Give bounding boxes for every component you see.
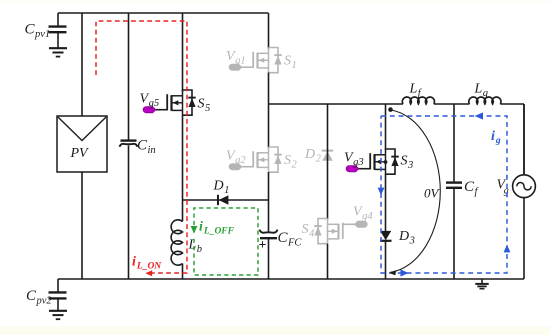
wire half-bridge midpoint to L_f	[269, 103, 404, 105]
zero-voltage arc annotation	[388, 107, 440, 275]
capacitor C_in	[120, 138, 156, 157]
inductor L_g	[469, 82, 501, 105]
label 0V	[424, 186, 441, 201]
wire source top	[523, 104, 525, 175]
wire PV top	[81, 13, 83, 116]
mosfet S4 (inactive, mirrored)	[302, 219, 343, 244]
diode D2 (inactive)	[304, 147, 333, 165]
label i_g	[491, 129, 501, 146]
mosfet S5	[167, 90, 210, 115]
wire L_g to right rail	[500, 104, 524, 175]
gate terminal V_g3	[344, 151, 370, 172]
inductor L_b	[171, 220, 202, 265]
wire D3 to bottom	[385, 241, 387, 279]
capacitor C_pv2	[26, 279, 67, 310]
wire S1 source to S2 drain	[268, 73, 270, 149]
wire S3 drain	[385, 104, 387, 150]
gate terminal V_g5	[140, 92, 168, 113]
svg-text:0V: 0V	[424, 186, 441, 201]
wire C_in branch top	[128, 13, 130, 140]
PV panel	[57, 116, 107, 172]
wire C_f top	[453, 104, 455, 182]
ground right	[475, 279, 488, 289]
bottom rail wire	[58, 278, 524, 280]
svg-text:PV: PV	[70, 146, 90, 161]
svg-text:+: +	[259, 238, 267, 253]
wire S5 drain	[182, 13, 184, 92]
gate terminal V_g2 (inactive)	[226, 149, 253, 170]
wire top rail to S1 drain	[268, 13, 270, 49]
mosfet S2 (inactive)	[253, 147, 297, 172]
capacitor C_pv1	[25, 13, 67, 48]
mosfet S3	[370, 149, 413, 174]
blue dashed current loop i_g	[378, 112, 511, 276]
wire source to bottom	[523, 198, 525, 279]
inductor L_f	[402, 82, 434, 105]
green dashed current loop i_L_OFF	[191, 208, 258, 275]
wire C_in branch bottom	[128, 146, 130, 280]
wire midcolumn top	[327, 104, 329, 151]
label i_L_ON	[132, 255, 162, 272]
ground for C_pv1	[49, 48, 67, 56]
wire D2 to S4	[327, 150, 329, 220]
capacitor C_f	[446, 179, 480, 198]
gate terminal V_g4 (inactive)	[343, 205, 374, 228]
wire L_b to bottom	[182, 264, 184, 280]
wire C_FC to bottom	[268, 238, 270, 279]
wire S5 source to L_b	[182, 115, 184, 222]
top rail wire	[58, 12, 269, 14]
mosfet S1 (inactive)	[253, 48, 297, 73]
wire L_f to L_g	[434, 103, 470, 105]
wire S3 source to D3	[385, 174, 387, 231]
label i_L_OFF	[199, 220, 235, 237]
wire S2 source to node	[268, 172, 270, 233]
ground for C_pv2	[49, 311, 67, 319]
diode D3	[380, 229, 415, 247]
wire D1	[183, 199, 269, 201]
wire PV bottom	[81, 172, 83, 279]
diode D1	[213, 179, 230, 206]
gate terminal V_g1 (inactive)	[226, 49, 253, 70]
capacitor C_FC	[259, 230, 303, 253]
wire C_f bottom	[453, 188, 455, 279]
wire S4 to bottom	[327, 244, 329, 279]
red dashed current path i_L_ON	[96, 21, 187, 276]
ac source V'_g	[497, 175, 536, 198]
